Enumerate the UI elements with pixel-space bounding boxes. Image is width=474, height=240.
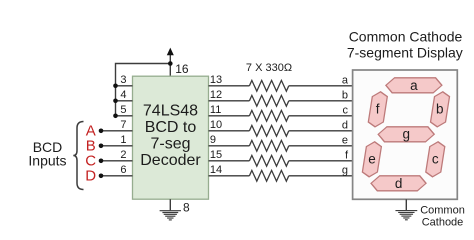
display segment b (430, 92, 450, 127)
svg-text:b: b (436, 102, 444, 117)
wire input C to pin 2 (101, 160, 133, 162)
svg-text:11: 11 (210, 104, 221, 116)
display segment c (425, 142, 445, 177)
svg-text:14: 14 (210, 164, 222, 176)
svg-text:16: 16 (175, 62, 189, 76)
wire resistor R1 to display segment a (289, 85, 353, 87)
display segment a (385, 78, 443, 93)
ground (IC pin 8) (160, 211, 181, 220)
display segment e (362, 142, 382, 177)
svg-text:4: 4 (120, 89, 126, 101)
svg-text:Cathode: Cathode (422, 216, 464, 228)
svg-text:d: d (342, 119, 348, 131)
svg-text:c: c (343, 104, 349, 116)
svg-text:g: g (402, 127, 410, 142)
wire pin 9 to resistor R5 (209, 145, 250, 147)
node B dot (99, 144, 104, 149)
wire pin 3 (116, 85, 133, 87)
wire resistor R7 to display segment g (289, 175, 353, 177)
wire pin 4 (116, 100, 133, 102)
display segment d (370, 176, 427, 191)
junction dot pin 3 (113, 84, 118, 89)
wire display common cathode to ground (405, 199, 407, 210)
wire resistor R4 to display segment d (289, 130, 353, 132)
power VCC arrow (167, 48, 174, 64)
display segment g (377, 127, 435, 142)
wire VCC to pin 16 (169, 64, 171, 77)
wire pin 11 to resistor R3 (209, 115, 250, 117)
svg-text:f: f (376, 102, 380, 117)
svg-text:2: 2 (120, 149, 126, 161)
brace for BCD inputs (73, 122, 83, 190)
svg-text:7: 7 (120, 119, 126, 131)
wire pin 14 to resistor R7 (209, 175, 250, 177)
wire resistor R5 to display segment e (289, 145, 353, 147)
display segment f (368, 92, 388, 127)
svg-text:c: c (432, 151, 439, 166)
svg-text:Common: Common (420, 204, 465, 216)
resistor R2 (249, 95, 288, 106)
junction dot pin 4 (113, 99, 118, 104)
svg-text:e: e (368, 151, 376, 166)
wire input A to pin 7 (101, 130, 133, 132)
svg-text:g: g (342, 164, 348, 176)
svg-text:e: e (342, 134, 348, 146)
wire pin 5 (116, 115, 133, 117)
svg-text:15: 15 (210, 149, 222, 161)
resistor R6 (249, 155, 288, 166)
svg-text:6: 6 (120, 164, 126, 176)
svg-text:1: 1 (120, 134, 126, 146)
wire input D to pin 6 (101, 175, 133, 177)
svg-text:D: D (85, 168, 96, 185)
svg-text:d: d (395, 176, 403, 191)
svg-text:a: a (410, 78, 418, 93)
svg-text:b: b (342, 89, 348, 101)
IC U1 74LS48 body (133, 76, 209, 199)
resistor R3 (249, 110, 288, 121)
svg-text:13: 13 (210, 74, 222, 86)
ground (display common cathode) (395, 211, 417, 220)
wire VCC bus to pins 3 4 5 (116, 64, 171, 116)
wire pin 10 to resistor R4 (209, 130, 250, 132)
svg-text:7-segment Display: 7-segment Display (347, 44, 463, 60)
svg-text:10: 10 (210, 119, 222, 131)
svg-text:Common Cathode: Common Cathode (349, 28, 463, 44)
svg-text:f: f (345, 149, 349, 161)
wire resistor R6 to display segment f (289, 160, 353, 162)
junction dot pin 5 (113, 114, 118, 119)
wire pin 8 to ground (169, 199, 171, 210)
wire input B to pin 1 (101, 145, 133, 147)
svg-text:7 X 330Ω: 7 X 330Ω (246, 62, 292, 74)
svg-text:Decoder: Decoder (140, 152, 201, 169)
svg-text:7-seg: 7-seg (150, 136, 190, 153)
resistor R1 (249, 80, 288, 91)
display DS1 body (353, 70, 458, 199)
junction dot at pin 16 (168, 61, 173, 66)
wire resistor R3 to display segment c (289, 115, 353, 117)
svg-text:a: a (342, 74, 349, 86)
svg-text:8: 8 (183, 201, 190, 215)
node C dot (99, 159, 104, 164)
resistor R7 (249, 170, 288, 181)
svg-text:BCD to: BCD to (145, 119, 197, 136)
svg-text:12: 12 (210, 89, 222, 101)
wire pin 13 to resistor R1 (209, 85, 250, 87)
resistor R5 (249, 140, 288, 151)
svg-text:9: 9 (210, 134, 216, 146)
node D dot (99, 174, 104, 179)
svg-text:74LS48: 74LS48 (143, 102, 198, 119)
resistor R4 (249, 125, 288, 136)
svg-text:Inputs: Inputs (28, 152, 66, 168)
svg-text:5: 5 (120, 104, 126, 116)
node A dot (99, 129, 104, 134)
svg-text:3: 3 (120, 74, 126, 86)
wire resistor R2 to display segment b (289, 100, 353, 102)
wire pin 15 to resistor R6 (209, 160, 250, 162)
wire pin 12 to resistor R2 (209, 100, 250, 102)
